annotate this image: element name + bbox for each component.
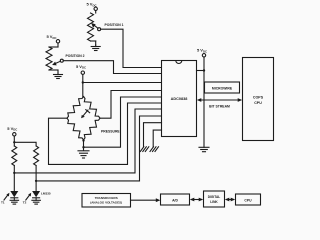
resistor bridge bottom-left (67, 118, 84, 140)
svg-text:A/D: A/D (172, 198, 178, 202)
svg-text:5 VDC: 5 VDC (46, 34, 56, 40)
PRESSURE label (101, 130, 120, 134)
resistor bridge top-left (67, 97, 84, 119)
node bridge bottom junction (82, 139, 84, 150)
wire bridge supply to ADC (83, 82, 162, 84)
ground stub 2 (ADC DGND) (150, 130, 162, 151)
resistor bridge bottom-right (84, 118, 101, 140)
wire POSITION 1 to ADC CH0 (101, 29, 162, 67)
BIT STREAM label (209, 105, 230, 109)
wire digital link to CPU arrow (225, 198, 235, 202)
svg-text:T1: T1 (1, 201, 5, 205)
wire T1 to ADC (14, 109, 161, 173)
node POSITION 1 label (105, 23, 124, 27)
COPS CPU box (243, 58, 274, 141)
wire A/D to digital link arrow (190, 198, 203, 202)
DIGITAL LINK box (204, 191, 225, 207)
svg-text:POSITION 1: POSITION 1 (105, 23, 124, 27)
diode T1 (LM335) (10, 191, 18, 200)
A/D box (161, 194, 190, 205)
ground (pot R1) (91, 45, 100, 51)
supply terminal 5 VDC (pot R2) (46, 34, 59, 47)
wire transducers to A/D arrow (131, 198, 161, 202)
node POSITION 2 label (66, 54, 85, 58)
label T1 (1, 201, 5, 205)
svg-text:5 VDC: 5 VDC (197, 48, 207, 54)
resistor bridge top-right (84, 97, 101, 119)
node bridge supply junction (82, 81, 84, 83)
resistor R3 (12, 146, 17, 191)
ground (T1) (10, 200, 19, 204)
potentiometer R2 (46, 47, 63, 73)
arrow T1 adjust (4, 193, 9, 200)
ground (T2) (32, 200, 41, 204)
svg-text:COPS: COPS (253, 96, 264, 100)
svg-text:5 VDC: 5 VDC (7, 126, 17, 132)
svg-text:5 VDC: 5 VDC (76, 64, 86, 70)
node V+ junction (203, 69, 205, 71)
supply terminal 5 VDC (LM335) (7, 126, 17, 146)
svg-text:MICROWIRE: MICROWIRE (212, 86, 233, 90)
svg-text:PRESSURE: PRESSURE (101, 130, 120, 134)
node LM335 supply junction (13, 141, 15, 143)
label T2 (23, 201, 27, 205)
wire T2 to ADC (36, 116, 161, 181)
wire V+ to ADC (197, 70, 205, 72)
node T1 junction (13, 172, 15, 174)
op-amp U1 ADC0838 (162, 61, 197, 137)
supply terminal 5 VDC (ADC V+) (197, 48, 207, 148)
wire POSITION 2 to ADC CH1 (63, 61, 161, 74)
CPU box (236, 194, 261, 205)
diode T2 (LM335) (32, 191, 40, 200)
svg-text:(ANALOG VOLTAGES): (ANALOG VOLTAGES) (90, 201, 122, 205)
TRANSDUCERS box (82, 194, 131, 208)
wire bridge bottom to ADC (84, 97, 162, 147)
potentiometer R1 (88, 13, 101, 45)
supply terminal 5 VDC (pot R1) (86, 2, 97, 13)
supply terminal 5 VDC (bridge) (76, 64, 86, 97)
ground stub 1 (ADC AGND) (140, 123, 161, 152)
resistor R4 (34, 146, 39, 191)
svg-text:ADC0838: ADC0838 (171, 97, 188, 101)
wire bridge left node to ADC (49, 103, 162, 164)
ground (ADC V+ line) (199, 147, 209, 151)
wire bridge right node to ADC (100, 91, 162, 119)
label LM335 (41, 191, 51, 195)
ground (pot R2) (54, 73, 63, 79)
svg-text:LM335: LM335 (41, 191, 51, 195)
MICROWIRE box (205, 82, 240, 93)
svg-text:POSITION 2: POSITION 2 (66, 54, 85, 58)
ground (bridge) (78, 151, 89, 158)
svg-text:CPU: CPU (244, 198, 252, 202)
wire BIT STREAM arrow (197, 98, 242, 102)
svg-text:BIT STREAM: BIT STREAM (209, 105, 230, 109)
arrow T2 adjust (26, 193, 31, 200)
svg-text:CPU: CPU (254, 101, 262, 105)
node T2 junction (35, 180, 37, 182)
svg-text:T2: T2 (23, 201, 27, 205)
svg-text:DIGITAL: DIGITAL (208, 195, 221, 199)
pressure arrow symbol (81, 110, 90, 119)
svg-text:5 VDC: 5 VDC (86, 2, 96, 8)
svg-text:LINK: LINK (210, 200, 218, 204)
wire supply rail to second resistor (14, 142, 36, 146)
svg-text:TRANSDUCERS: TRANSDUCERS (95, 196, 118, 200)
